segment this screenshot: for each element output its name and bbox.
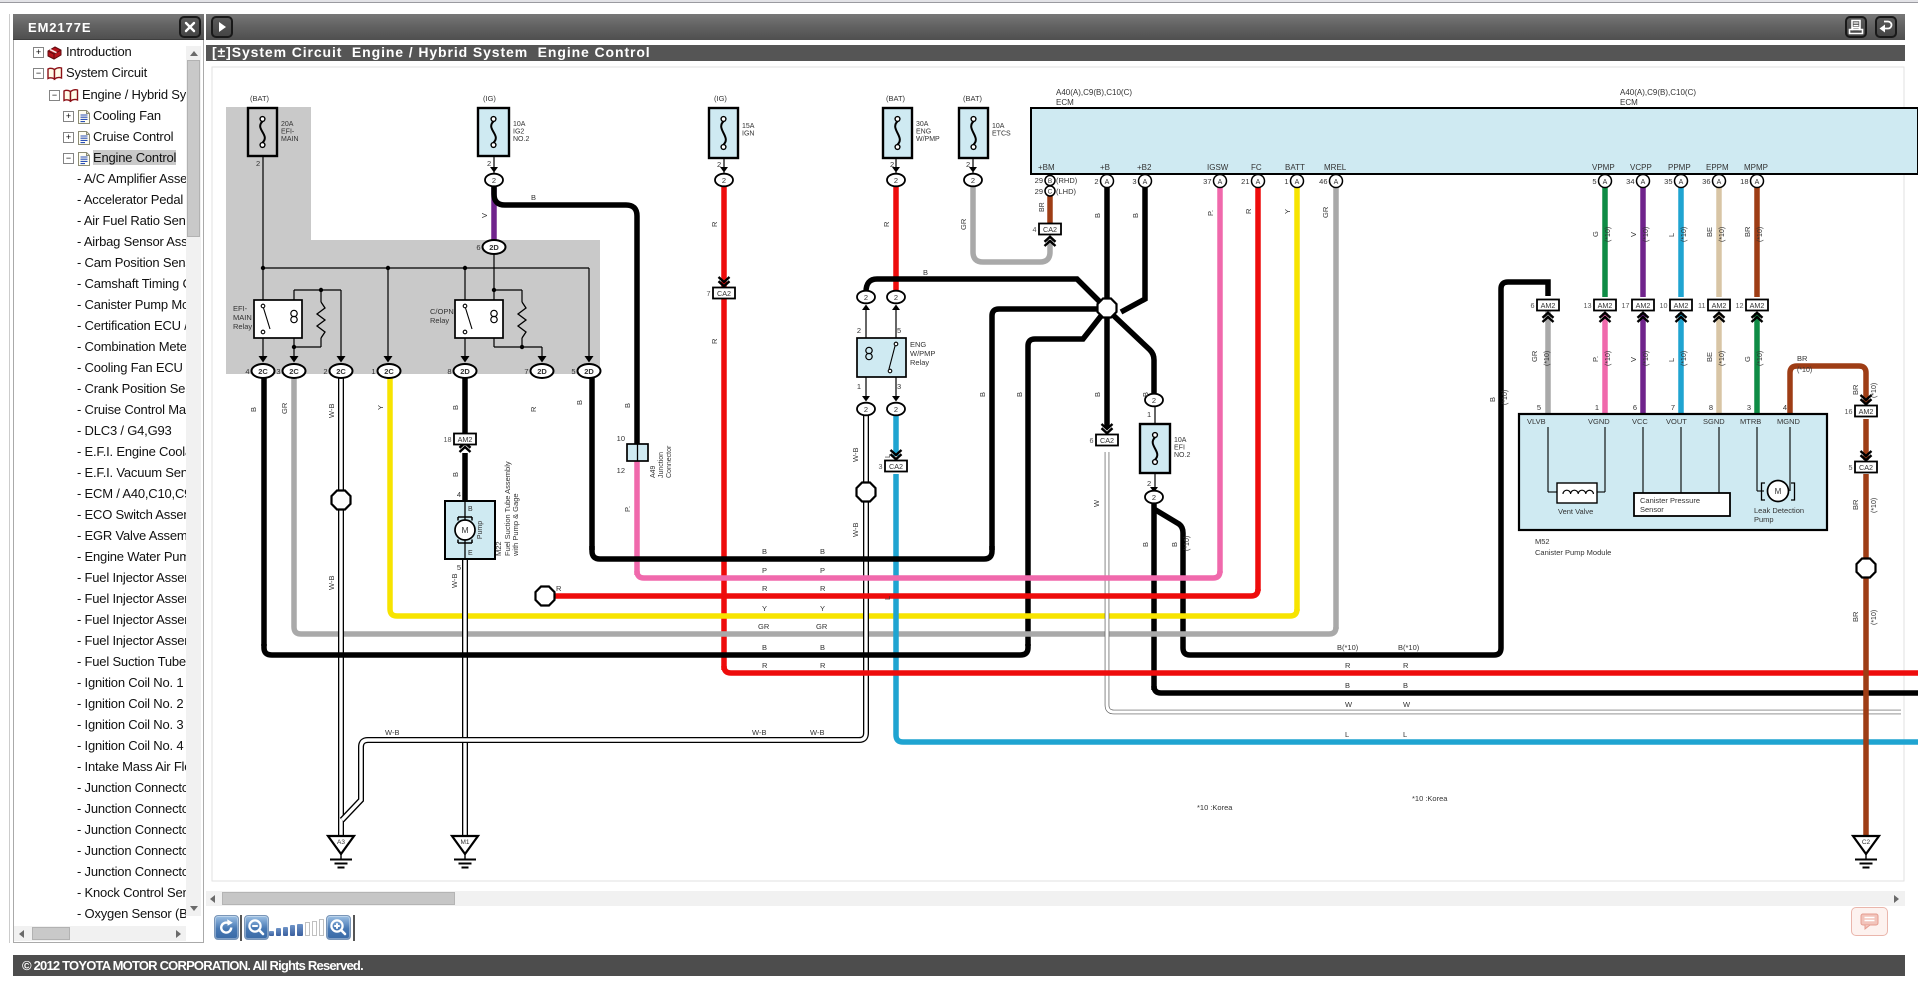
svg-text:1: 1 xyxy=(1595,403,1599,412)
svg-text:L: L xyxy=(883,596,892,600)
svg-text:EFI: EFI xyxy=(1174,445,1185,452)
svg-text:B: B xyxy=(575,400,584,405)
svg-text:C/OPN: C/OPN xyxy=(430,307,454,316)
svg-text:B: B xyxy=(1093,213,1102,218)
svg-text:R: R xyxy=(820,661,826,670)
svg-text:W-B: W-B xyxy=(851,523,860,537)
svg-text:Relay: Relay xyxy=(910,358,929,367)
svg-text:Leak Detection: Leak Detection xyxy=(1754,506,1804,515)
svg-text:B: B xyxy=(1403,681,1408,690)
svg-text:4: 4 xyxy=(1033,225,1037,234)
svg-text:1: 1 xyxy=(857,382,861,391)
svg-text:M22: M22 xyxy=(494,541,503,556)
svg-text:34: 34 xyxy=(1626,177,1634,186)
svg-text:(IG): (IG) xyxy=(483,94,496,103)
svg-text:R: R xyxy=(710,338,719,344)
svg-text:B: B xyxy=(762,547,767,556)
svg-text:Junction: Junction xyxy=(658,452,665,478)
svg-text:B: B xyxy=(531,193,536,202)
svg-text:2: 2 xyxy=(1152,493,1156,502)
svg-text:NO.2: NO.2 xyxy=(513,136,529,143)
svg-text:(*10): (*10) xyxy=(1605,351,1612,366)
svg-text:B: B xyxy=(1015,392,1024,397)
svg-text:2: 2 xyxy=(857,326,861,335)
svg-text:M: M xyxy=(1775,487,1782,496)
svg-text:(*10): (*10) xyxy=(1871,383,1878,398)
svg-text:V: V xyxy=(1629,357,1638,362)
svg-text:CA2: CA2 xyxy=(1043,225,1057,234)
svg-text:(RHD): (RHD) xyxy=(1056,176,1078,185)
svg-text:5: 5 xyxy=(1537,403,1541,412)
svg-text:ENG: ENG xyxy=(910,340,926,349)
svg-text:Y: Y xyxy=(376,405,385,410)
svg-text:6: 6 xyxy=(1531,301,1535,310)
svg-text:1: 1 xyxy=(1147,410,1151,419)
svg-text:VOUT: VOUT xyxy=(1666,417,1687,426)
svg-text:BR: BR xyxy=(1743,226,1752,237)
svg-text:GR: GR xyxy=(758,622,770,631)
svg-text:R: R xyxy=(820,584,826,593)
svg-text:2C: 2C xyxy=(384,367,394,376)
svg-text:2: 2 xyxy=(864,405,868,414)
svg-text:18: 18 xyxy=(444,435,452,444)
svg-text:A: A xyxy=(1218,179,1223,186)
svg-text:46: 46 xyxy=(1319,177,1327,186)
svg-text:Canister Pressure: Canister Pressure xyxy=(1640,496,1700,505)
svg-text:2: 2 xyxy=(722,176,726,185)
svg-text:Relay: Relay xyxy=(233,322,252,331)
svg-text:2: 2 xyxy=(1147,479,1151,488)
svg-text:BE: BE xyxy=(1705,227,1714,237)
svg-text:(*10): (*10) xyxy=(1643,227,1650,242)
svg-text:GR: GR xyxy=(816,622,828,631)
svg-text:10: 10 xyxy=(617,434,625,443)
svg-text:B: B xyxy=(978,392,987,397)
svg-text:2: 2 xyxy=(894,293,898,302)
svg-text:AM2: AM2 xyxy=(1674,301,1689,310)
svg-text:BE: BE xyxy=(1705,352,1714,362)
svg-text:2D: 2D xyxy=(489,243,499,252)
svg-text:CA2: CA2 xyxy=(1859,463,1873,472)
svg-text:W: W xyxy=(1092,499,1101,507)
svg-text:R: R xyxy=(1244,208,1253,214)
svg-text:BR: BR xyxy=(1797,354,1808,363)
svg-text:B: B xyxy=(468,506,473,513)
svg-text:(*10): (*10) xyxy=(1502,390,1509,405)
svg-text:GR: GR xyxy=(1530,350,1539,362)
svg-text:6: 6 xyxy=(1633,403,1637,412)
svg-text:Y: Y xyxy=(762,604,767,613)
svg-text:L: L xyxy=(1667,358,1676,362)
svg-text:L: L xyxy=(883,454,892,458)
svg-text:(*10): (*10) xyxy=(1757,227,1764,242)
svg-text:10: 10 xyxy=(1660,301,1668,310)
svg-text:8: 8 xyxy=(447,367,451,376)
svg-text:VGND: VGND xyxy=(1588,417,1610,426)
svg-text:11: 11 xyxy=(1698,301,1705,310)
svg-text:VCPP: VCPP xyxy=(1630,163,1652,172)
svg-text:37: 37 xyxy=(1203,177,1211,186)
svg-text:5: 5 xyxy=(457,563,461,572)
svg-text:35: 35 xyxy=(1664,177,1672,186)
svg-text:FC: FC xyxy=(1251,163,1262,172)
svg-text:Vent Valve: Vent Valve xyxy=(1558,507,1593,516)
svg-text:W-B: W-B xyxy=(385,728,399,737)
svg-text:2D: 2D xyxy=(584,367,594,376)
svg-text:G: G xyxy=(1743,356,1752,362)
svg-text:R: R xyxy=(882,221,891,227)
svg-text:(*10): (*10) xyxy=(1719,227,1726,242)
svg-text:10A: 10A xyxy=(513,121,526,128)
svg-text:2C: 2C xyxy=(258,367,268,376)
svg-text:(BAT): (BAT) xyxy=(886,94,906,103)
svg-text:A3: A3 xyxy=(337,839,345,846)
svg-text:Pump: Pump xyxy=(477,521,484,539)
svg-text:7: 7 xyxy=(1671,403,1675,412)
svg-text:IG2: IG2 xyxy=(513,129,524,136)
svg-text:A: A xyxy=(1679,179,1684,186)
svg-text:BR: BR xyxy=(1851,611,1860,622)
svg-text:R: R xyxy=(710,221,719,227)
svg-text:AM2: AM2 xyxy=(1750,301,1765,310)
svg-text:SGND: SGND xyxy=(1703,417,1725,426)
svg-text:2: 2 xyxy=(492,176,496,185)
svg-text:A: A xyxy=(1334,179,1339,186)
svg-text:VPMP: VPMP xyxy=(1592,163,1615,172)
svg-text:MAIN: MAIN xyxy=(233,313,252,322)
svg-text:B(*10): B(*10) xyxy=(1398,643,1420,652)
svg-text:NO.2: NO.2 xyxy=(1174,452,1190,459)
svg-text:B: B xyxy=(923,268,928,277)
svg-text:BR: BR xyxy=(1851,384,1860,395)
svg-text:B: B xyxy=(451,405,460,410)
svg-text:7: 7 xyxy=(524,367,528,376)
svg-text:W-B: W-B xyxy=(851,448,860,462)
svg-text:2: 2 xyxy=(894,405,898,414)
svg-text:VLVB: VLVB xyxy=(1527,417,1546,426)
svg-text:2: 2 xyxy=(894,176,898,185)
svg-text:M1: M1 xyxy=(460,839,469,846)
svg-text:A: A xyxy=(1641,179,1646,186)
svg-text:36: 36 xyxy=(1702,177,1710,186)
svg-text:W-B: W-B xyxy=(327,576,336,590)
svg-text:12: 12 xyxy=(1736,301,1744,310)
svg-text:with Pump & Gage: with Pump & Gage xyxy=(511,493,520,557)
svg-text:P: P xyxy=(762,566,767,575)
svg-text:2: 2 xyxy=(323,367,327,376)
svg-text:B: B xyxy=(1131,213,1140,218)
svg-text:4: 4 xyxy=(457,490,461,499)
svg-text:5: 5 xyxy=(897,326,901,335)
svg-text:+B: +B xyxy=(1100,163,1110,172)
svg-text:4: 4 xyxy=(1783,403,1787,412)
svg-text:6: 6 xyxy=(1090,436,1094,445)
svg-text:R: R xyxy=(762,661,768,670)
svg-text:Connector: Connector xyxy=(666,445,673,478)
svg-text:+BM: +BM xyxy=(1038,163,1055,172)
svg-text:13: 13 xyxy=(1584,301,1592,310)
svg-text:B: B xyxy=(623,403,632,408)
svg-text:EFI-: EFI- xyxy=(281,129,295,136)
svg-text:+B2: +B2 xyxy=(1137,163,1152,172)
svg-text:B: B xyxy=(1170,542,1179,547)
svg-text:A: A xyxy=(1105,179,1110,186)
svg-text:3: 3 xyxy=(897,382,901,391)
svg-text:M: M xyxy=(461,525,468,535)
svg-text:2: 2 xyxy=(1152,396,1156,405)
svg-text:2C: 2C xyxy=(289,367,299,376)
svg-text:2D: 2D xyxy=(537,367,547,376)
svg-text:GR: GR xyxy=(280,402,289,414)
svg-text:W-B: W-B xyxy=(810,728,824,737)
svg-text:IGSW: IGSW xyxy=(1207,163,1229,172)
svg-text:A: A xyxy=(1143,179,1148,186)
svg-text:5: 5 xyxy=(571,367,575,376)
svg-text:Sensor: Sensor xyxy=(1640,505,1664,514)
svg-text:(LHD): (LHD) xyxy=(1056,187,1077,196)
svg-text:7: 7 xyxy=(707,289,711,298)
svg-text:CA2: CA2 xyxy=(717,289,731,298)
svg-text:12: 12 xyxy=(617,466,625,475)
svg-text:GR: GR xyxy=(959,218,968,230)
svg-text:Y: Y xyxy=(1283,209,1292,214)
svg-text:A: A xyxy=(1603,179,1608,186)
svg-text:BR: BR xyxy=(1039,202,1046,212)
svg-text:MPMP: MPMP xyxy=(1744,163,1768,172)
svg-text:MREL: MREL xyxy=(1324,163,1347,172)
svg-text:B: B xyxy=(1048,178,1052,185)
svg-text:EFI-: EFI- xyxy=(233,304,248,313)
svg-text:B: B xyxy=(820,643,825,652)
svg-text:Pump: Pump xyxy=(1754,515,1774,524)
svg-text:21: 21 xyxy=(1241,177,1249,186)
svg-text:B(*10): B(*10) xyxy=(1337,643,1359,652)
svg-text:B: B xyxy=(1141,392,1150,397)
svg-text:AM2: AM2 xyxy=(1598,301,1613,310)
svg-text:BR: BR xyxy=(1851,499,1860,510)
svg-text:B: B xyxy=(249,407,258,412)
svg-text:(IG): (IG) xyxy=(714,94,727,103)
svg-text:2: 2 xyxy=(256,159,260,168)
svg-text:W/PMP: W/PMP xyxy=(916,136,940,143)
svg-text:*10 :Korea: *10 :Korea xyxy=(1197,803,1233,812)
svg-text:R: R xyxy=(762,584,768,593)
svg-text:AM2: AM2 xyxy=(1541,301,1556,310)
svg-text:A: A xyxy=(1256,179,1261,186)
svg-text:MGND: MGND xyxy=(1777,417,1800,426)
svg-text:16: 16 xyxy=(1845,407,1853,416)
svg-text:E: E xyxy=(468,550,473,557)
svg-text:(*10): (*10) xyxy=(1681,227,1688,242)
svg-text:A49: A49 xyxy=(650,465,657,478)
svg-text:Canister Pump Module: Canister Pump Module xyxy=(1535,548,1611,557)
svg-text:W-B: W-B xyxy=(752,728,766,737)
svg-text:W: W xyxy=(1403,700,1411,709)
svg-text:(*10): (*10) xyxy=(1184,536,1191,551)
svg-text:(*10): (*10) xyxy=(1797,367,1812,374)
svg-text:PPMP: PPMP xyxy=(1668,163,1691,172)
svg-text:B: B xyxy=(1093,392,1102,397)
svg-text:BATT: BATT xyxy=(1285,163,1305,172)
svg-text:29: 29 xyxy=(1035,176,1043,185)
svg-text:L: L xyxy=(1667,233,1676,237)
svg-text:MTRB: MTRB xyxy=(1740,417,1761,426)
svg-text:(*10): (*10) xyxy=(1544,351,1551,366)
svg-text:(*10): (*10) xyxy=(1681,351,1688,366)
svg-text:1: 1 xyxy=(1284,177,1288,186)
svg-text:3: 3 xyxy=(1747,403,1751,412)
svg-text:29: 29 xyxy=(1035,187,1043,196)
svg-text:GR: GR xyxy=(1321,206,1330,218)
svg-text:P.: P. xyxy=(1206,210,1215,216)
svg-text:W: W xyxy=(1345,700,1353,709)
svg-text:AM2: AM2 xyxy=(1712,301,1727,310)
svg-text:1: 1 xyxy=(371,367,375,376)
svg-text:AM2: AM2 xyxy=(1859,407,1874,416)
svg-text:(*10): (*10) xyxy=(1643,351,1650,366)
svg-text:2D: 2D xyxy=(460,367,470,376)
svg-text:3: 3 xyxy=(276,367,280,376)
svg-text:R: R xyxy=(1345,661,1351,670)
svg-text:10A: 10A xyxy=(1174,437,1187,444)
svg-text:R: R xyxy=(556,584,562,593)
svg-text:IGN: IGN xyxy=(742,131,754,138)
svg-text:V: V xyxy=(480,213,489,218)
svg-text:W-B: W-B xyxy=(450,574,459,588)
svg-text:VCC: VCC xyxy=(1632,417,1648,426)
svg-text:A: A xyxy=(1755,179,1760,186)
svg-text:M52: M52 xyxy=(1535,537,1550,546)
svg-text:CA2: CA2 xyxy=(889,462,903,471)
svg-text:CA2: CA2 xyxy=(1100,436,1114,445)
svg-text:18: 18 xyxy=(1740,177,1748,186)
svg-text:6: 6 xyxy=(476,243,480,252)
svg-text:C: C xyxy=(1048,189,1053,196)
svg-text:G: G xyxy=(1591,231,1600,237)
svg-text:2C: 2C xyxy=(336,367,346,376)
svg-text:AM2: AM2 xyxy=(458,435,473,444)
svg-text:(*10): (*10) xyxy=(1719,351,1726,366)
svg-text:10A: 10A xyxy=(992,123,1005,130)
svg-text:MAIN: MAIN xyxy=(281,136,299,143)
svg-text:W/PMP: W/PMP xyxy=(910,349,935,358)
svg-text:(*10): (*10) xyxy=(1757,351,1764,366)
svg-text:17: 17 xyxy=(1622,301,1630,310)
svg-text:A: A xyxy=(1295,179,1300,186)
svg-text:(*10): (*10) xyxy=(1871,610,1878,625)
svg-text:P: P xyxy=(820,566,825,575)
svg-text:A40(A),C9(B),C10(C): A40(A),C9(B),C10(C) xyxy=(1620,88,1696,97)
svg-text:B: B xyxy=(762,643,767,652)
svg-text:Relay: Relay xyxy=(430,316,449,325)
svg-text:20A: 20A xyxy=(281,121,294,128)
svg-text:(BAT): (BAT) xyxy=(250,94,270,103)
svg-text:B: B xyxy=(1488,397,1497,402)
svg-text:L: L xyxy=(1345,730,1349,739)
svg-text:P.: P. xyxy=(623,506,632,512)
svg-text:W-B: W-B xyxy=(327,404,336,418)
svg-text:3: 3 xyxy=(1132,177,1136,186)
svg-text:*10 :Korea: *10 :Korea xyxy=(1412,794,1448,803)
svg-text:B: B xyxy=(1141,542,1150,547)
svg-text:ECM: ECM xyxy=(1056,98,1074,107)
svg-text:2: 2 xyxy=(487,159,491,168)
svg-text:EPPM: EPPM xyxy=(1706,163,1729,172)
svg-text:30A: 30A xyxy=(916,121,929,128)
svg-text:ETCS: ETCS xyxy=(992,131,1011,138)
svg-text:ENG: ENG xyxy=(916,129,931,136)
svg-text:5: 5 xyxy=(1849,463,1853,472)
svg-text:2: 2 xyxy=(971,176,975,185)
svg-text:A: A xyxy=(1717,179,1722,186)
svg-text:2: 2 xyxy=(1094,177,1098,186)
svg-text:Y: Y xyxy=(820,604,825,613)
svg-text:B: B xyxy=(820,547,825,556)
svg-text:B: B xyxy=(451,472,460,477)
svg-text:V: V xyxy=(1629,232,1638,237)
svg-text:(*10): (*10) xyxy=(1871,498,1878,513)
svg-text:A40(A),C9(B),C10(C): A40(A),C9(B),C10(C) xyxy=(1056,88,1132,97)
svg-text:5: 5 xyxy=(1592,177,1596,186)
svg-text:(BAT): (BAT) xyxy=(963,94,983,103)
svg-text:3: 3 xyxy=(879,462,883,471)
svg-text:AM2: AM2 xyxy=(1636,301,1651,310)
svg-text:2: 2 xyxy=(864,293,868,302)
svg-text:ECM: ECM xyxy=(1620,98,1638,107)
svg-text:P.: P. xyxy=(1591,356,1600,362)
svg-text:R: R xyxy=(1403,661,1409,670)
svg-text:15A: 15A xyxy=(742,123,755,130)
svg-text:B: B xyxy=(1345,681,1350,690)
svg-text:L: L xyxy=(1403,730,1407,739)
svg-text:R: R xyxy=(529,406,538,412)
svg-text:(*10): (*10) xyxy=(1605,227,1612,242)
svg-text:8: 8 xyxy=(1709,403,1713,412)
svg-text:C2: C2 xyxy=(1862,839,1871,846)
svg-text:4: 4 xyxy=(245,367,249,376)
